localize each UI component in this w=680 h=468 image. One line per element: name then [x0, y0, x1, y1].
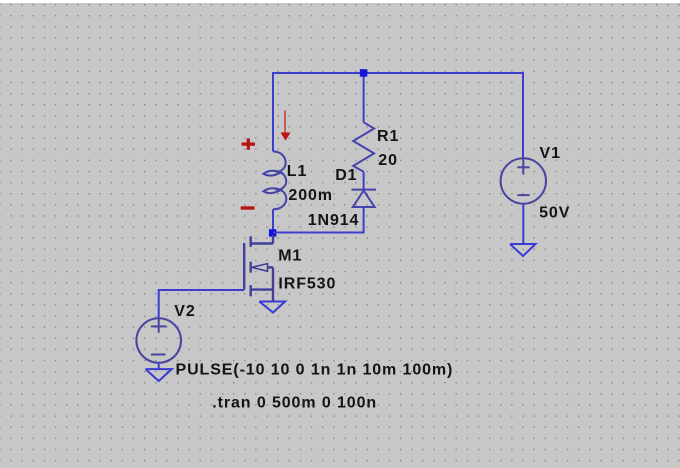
wire inductor bottom — [272, 209, 274, 236]
top white strip — [0, 0, 680, 3]
wire V2 bottom — [158, 363, 160, 369]
svg-text:D1: D1 — [335, 167, 357, 184]
mosfet M1 — [244, 235, 273, 301]
inductor L1 — [263, 151, 286, 209]
V1 source — [501, 158, 546, 203]
svg-text:50V: 50V — [539, 205, 570, 222]
svg-text:L1: L1 — [287, 163, 307, 180]
svg-text:PULSE(-10 10 0 1n 1n 10m 100m): PULSE(-10 10 0 1n 1n 10m 100m) — [176, 362, 454, 379]
red plus — [242, 138, 255, 149]
svg-text:20: 20 — [378, 152, 398, 169]
svg-text:.tran 0 500m 0 100n: .tran 0 500m 0 100n — [212, 394, 377, 411]
svg-text:V1: V1 — [540, 145, 561, 162]
wire V1 bottom — [522, 204, 524, 244]
wire resistor to diode — [363, 172, 365, 190]
red current arrow — [281, 111, 290, 141]
wire top horizontal — [273, 72, 523, 74]
resistor R1 — [353, 122, 374, 172]
junction top — [360, 69, 368, 77]
svg-text:V2: V2 — [174, 303, 195, 320]
junction node — [269, 229, 277, 237]
wire right vertical to V1 — [522, 72, 524, 158]
svg-text:1N914: 1N914 — [308, 212, 360, 229]
wire resistor top — [363, 73, 365, 122]
ground V2 — [146, 369, 172, 381]
svg-text:IRF530: IRF530 — [278, 276, 336, 293]
wire V2 to gate — [159, 290, 245, 318]
svg-text:R1: R1 — [377, 128, 399, 145]
wire node to diode — [273, 207, 364, 233]
diode D1 — [352, 190, 376, 207]
wire left vertical to inductor — [272, 72, 274, 152]
ground under M1 — [259, 302, 285, 313]
svg-text:M1: M1 — [278, 248, 302, 265]
V2 source — [136, 318, 181, 363]
svg-text:200m: 200m — [288, 187, 333, 204]
red minus — [241, 206, 255, 209]
ground V1 — [510, 244, 536, 256]
